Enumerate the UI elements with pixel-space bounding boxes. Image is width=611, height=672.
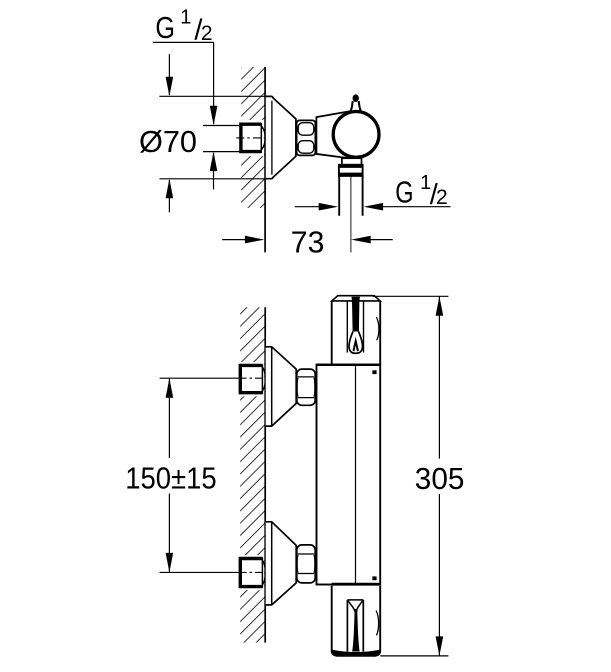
outlet collar below circle [342,158,362,165]
leader underline for G 1/2 [153,41,214,43]
escutcheon flange inner line [271,101,273,175]
svg-text:1: 1 [180,7,191,29]
nipple centerline (dash-dot) [236,137,264,139]
top cap / temperature handle [332,296,381,365]
svg-text:150±15: 150±15 [125,460,217,495]
outlet pipe walls [339,176,362,216]
150±15 dimension line with arrows [166,378,174,572]
thermostat knob circle (top view) [333,111,379,157]
upper escutcheon cone (bottom view) [266,347,297,426]
escutcheon cone (top view) [266,96,296,178]
valve body block (top view) [316,111,352,158]
mixer body (bottom view) [317,365,381,585]
Ø70 bottom extension line [159,178,265,180]
up arrow at nipple bottom ext [210,152,218,190]
svg-text:G: G [395,174,413,209]
label G 1/2 top-left [155,7,212,47]
hex nut (top view) [297,120,316,155]
small lever knob on top [351,94,361,111]
Ø70 top extension line [159,95,265,97]
bottom cap / volume handle [332,586,381,656]
svg-text:G: G [155,10,175,45]
svg-text:2: 2 [201,22,213,45]
305 top extension line [373,295,449,297]
pipe centerline [350,176,352,252]
leader vertical with down arrow [210,42,218,125]
svg-text:305: 305 [415,461,465,496]
G1/2 right dimension arrows at pipe [295,203,451,211]
lower escutcheon cone (bottom view) [266,522,297,605]
G1/2 nipple top extension line [203,125,241,127]
upper hex nut (bottom view) [297,369,315,405]
svg-text:2: 2 [436,186,448,209]
wall hatching (top view) [237,67,265,208]
lower centerline + 150 ext line [160,571,265,573]
305 dimension line with arrows [436,296,444,656]
svg-text:Ø70: Ø70 [139,124,197,159]
label G 1/2 right [395,172,447,211]
svg-text:73: 73 [291,224,325,259]
73 dimension right arrow [351,236,393,244]
73 dimension left arrow [222,236,264,244]
G1/2 nipple bottom extension line [203,151,241,153]
upper centerline + 150 ext line [160,377,265,379]
lower union nipple square [240,557,265,588]
wall hatching (bottom view) [237,307,265,642]
upper union nipple square [240,364,265,394]
wall face line (top view) [264,67,266,253]
wall face line (bottom view) [264,307,266,642]
down arrow at escutcheon top ext [166,54,174,96]
outlet ring [339,165,363,176]
up arrow at escutcheon bottom ext [166,179,174,213]
lower hex nut (bottom view) [297,545,315,583]
305 bottom extension line [380,655,448,657]
union nipple square (top view) [241,123,265,153]
